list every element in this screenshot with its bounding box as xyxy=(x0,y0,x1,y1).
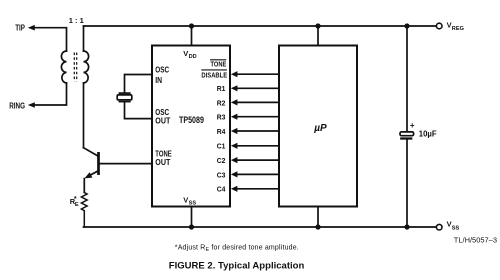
svg-text:µP: µP xyxy=(313,123,327,134)
svg-text:V: V xyxy=(183,49,188,58)
svg-text:R3: R3 xyxy=(217,113,226,122)
svg-text:10µF: 10µF xyxy=(419,130,437,139)
svg-text:OUT: OUT xyxy=(155,116,170,125)
svg-text:FIGURE 2. Typical Application: FIGURE 2. Typical Application xyxy=(169,260,305,270)
svg-text:C3: C3 xyxy=(217,170,226,179)
svg-text:1 : 1: 1 : 1 xyxy=(69,16,84,25)
svg-text:REG: REG xyxy=(452,26,464,32)
svg-text:C1: C1 xyxy=(217,142,226,151)
svg-text:R2: R2 xyxy=(217,98,226,107)
svg-text:DISABLE: DISABLE xyxy=(201,73,227,80)
svg-text:OSC: OSC xyxy=(155,66,169,75)
svg-text:OUT: OUT xyxy=(155,158,170,167)
svg-text:RING: RING xyxy=(9,101,25,110)
svg-text:TP5089: TP5089 xyxy=(179,115,204,125)
svg-text:IN: IN xyxy=(155,76,162,85)
svg-text:+: + xyxy=(410,121,415,130)
svg-text:TL/H/5057–3: TL/H/5057–3 xyxy=(454,237,497,244)
svg-text:SS: SS xyxy=(452,226,460,232)
svg-text:C2: C2 xyxy=(217,156,226,165)
svg-text:V: V xyxy=(183,195,188,204)
svg-text:R1: R1 xyxy=(217,84,226,93)
svg-text:DD: DD xyxy=(189,54,197,60)
svg-text:SS: SS xyxy=(189,200,197,206)
svg-text:R4: R4 xyxy=(217,127,226,136)
svg-text:TIP: TIP xyxy=(15,24,25,33)
svg-text:*: * xyxy=(74,196,77,203)
svg-text:TONE: TONE xyxy=(211,61,227,68)
svg-text:C4: C4 xyxy=(217,185,226,194)
